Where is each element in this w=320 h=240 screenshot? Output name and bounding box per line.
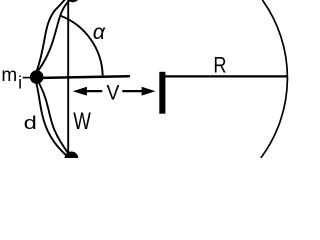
wire outer bow arc upper (36, 0, 66, 72)
wall thick bar (159, 72, 165, 114)
wire inner bow arc upper (38, 0, 72, 71)
svg-text:W: W (73, 108, 91, 135)
arrow V double-headed (73, 87, 156, 96)
svg-text:m: m (1, 65, 17, 86)
wire tick from label to dot (23, 77, 31, 79)
wire inner bow arc lower (39, 82, 70, 155)
wire horizontal line through m_i (36, 76, 130, 78)
svg-text:V: V (107, 80, 120, 104)
svg-text:i: i (18, 72, 22, 92)
angle arc alpha (60, 16, 103, 77)
wire outer bow arc lower (36, 81, 67, 156)
wire radius line R (165, 75, 287, 77)
node bottom junction dot (65, 152, 79, 166)
wire big circle arc (261, 0, 288, 158)
node top junction dot (66, 0, 79, 2)
svg-text:α: α (93, 20, 106, 44)
node m_i mass dot (30, 70, 44, 84)
wire vertical chord line (67, 0, 69, 158)
svg-text:R: R (213, 52, 226, 77)
svg-text:d: d (24, 112, 37, 133)
